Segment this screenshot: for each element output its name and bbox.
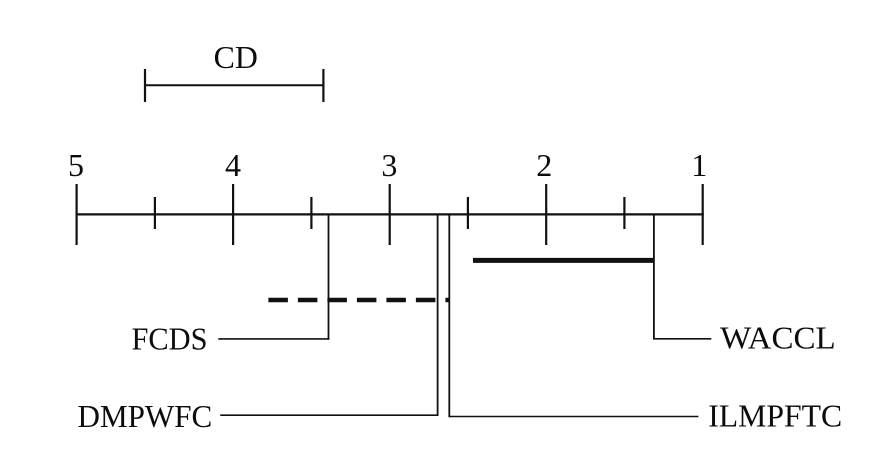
DMPWFC drop line bbox=[437, 216, 439, 416]
CD bar right tick bbox=[322, 69, 324, 102]
CD label bbox=[214, 39, 258, 75]
svg-text:2: 2 bbox=[536, 147, 552, 183]
svg-text:3: 3 bbox=[381, 147, 397, 183]
solid group bar bbox=[473, 258, 654, 263]
DMPWFC connector bbox=[220, 414, 438, 416]
major tick 2 bbox=[545, 184, 547, 245]
dashed group bar bbox=[268, 298, 449, 303]
minor tick 4.5 bbox=[154, 197, 156, 229]
svg-text:1: 1 bbox=[691, 147, 707, 183]
ILMPFTC drop line bbox=[448, 216, 450, 418]
svg-text:ILMPFTC: ILMPFTC bbox=[708, 398, 842, 434]
major tick 4 bbox=[232, 184, 234, 245]
WACCL drop line bbox=[653, 216, 655, 340]
major tick 5 bbox=[75, 184, 77, 245]
main axis bbox=[76, 213, 704, 215]
CD bar left tick bbox=[144, 69, 146, 102]
WACCL connector bbox=[653, 338, 711, 340]
svg-text:4: 4 bbox=[225, 147, 241, 183]
FCDS label bbox=[132, 320, 208, 356]
axis label 1 bbox=[691, 147, 707, 183]
svg-text:DMPWFC: DMPWFC bbox=[78, 398, 213, 434]
axis label 5 bbox=[68, 147, 84, 183]
svg-text:FCDS: FCDS bbox=[132, 320, 208, 356]
axis label 2 bbox=[536, 147, 552, 183]
major tick 1 bbox=[702, 184, 704, 245]
svg-text:CD: CD bbox=[214, 39, 258, 75]
FCDS drop line bbox=[328, 216, 330, 340]
FCDS connector bbox=[218, 338, 329, 340]
svg-text:5: 5 bbox=[68, 147, 84, 183]
ILMPFTC connector bbox=[449, 416, 698, 418]
minor tick 1.5 bbox=[623, 197, 625, 229]
minor tick 2.5 bbox=[467, 197, 469, 229]
axis label 4 bbox=[225, 147, 241, 183]
ILMPFTC label bbox=[708, 398, 842, 434]
major tick 3 bbox=[389, 184, 391, 245]
minor tick 3.5 bbox=[310, 197, 312, 229]
svg-text:WACCL: WACCL bbox=[720, 320, 836, 356]
WACCL label bbox=[720, 320, 836, 356]
DMPWFC label bbox=[78, 398, 213, 434]
axis label 3 bbox=[381, 147, 397, 183]
CD bar bbox=[145, 84, 323, 86]
